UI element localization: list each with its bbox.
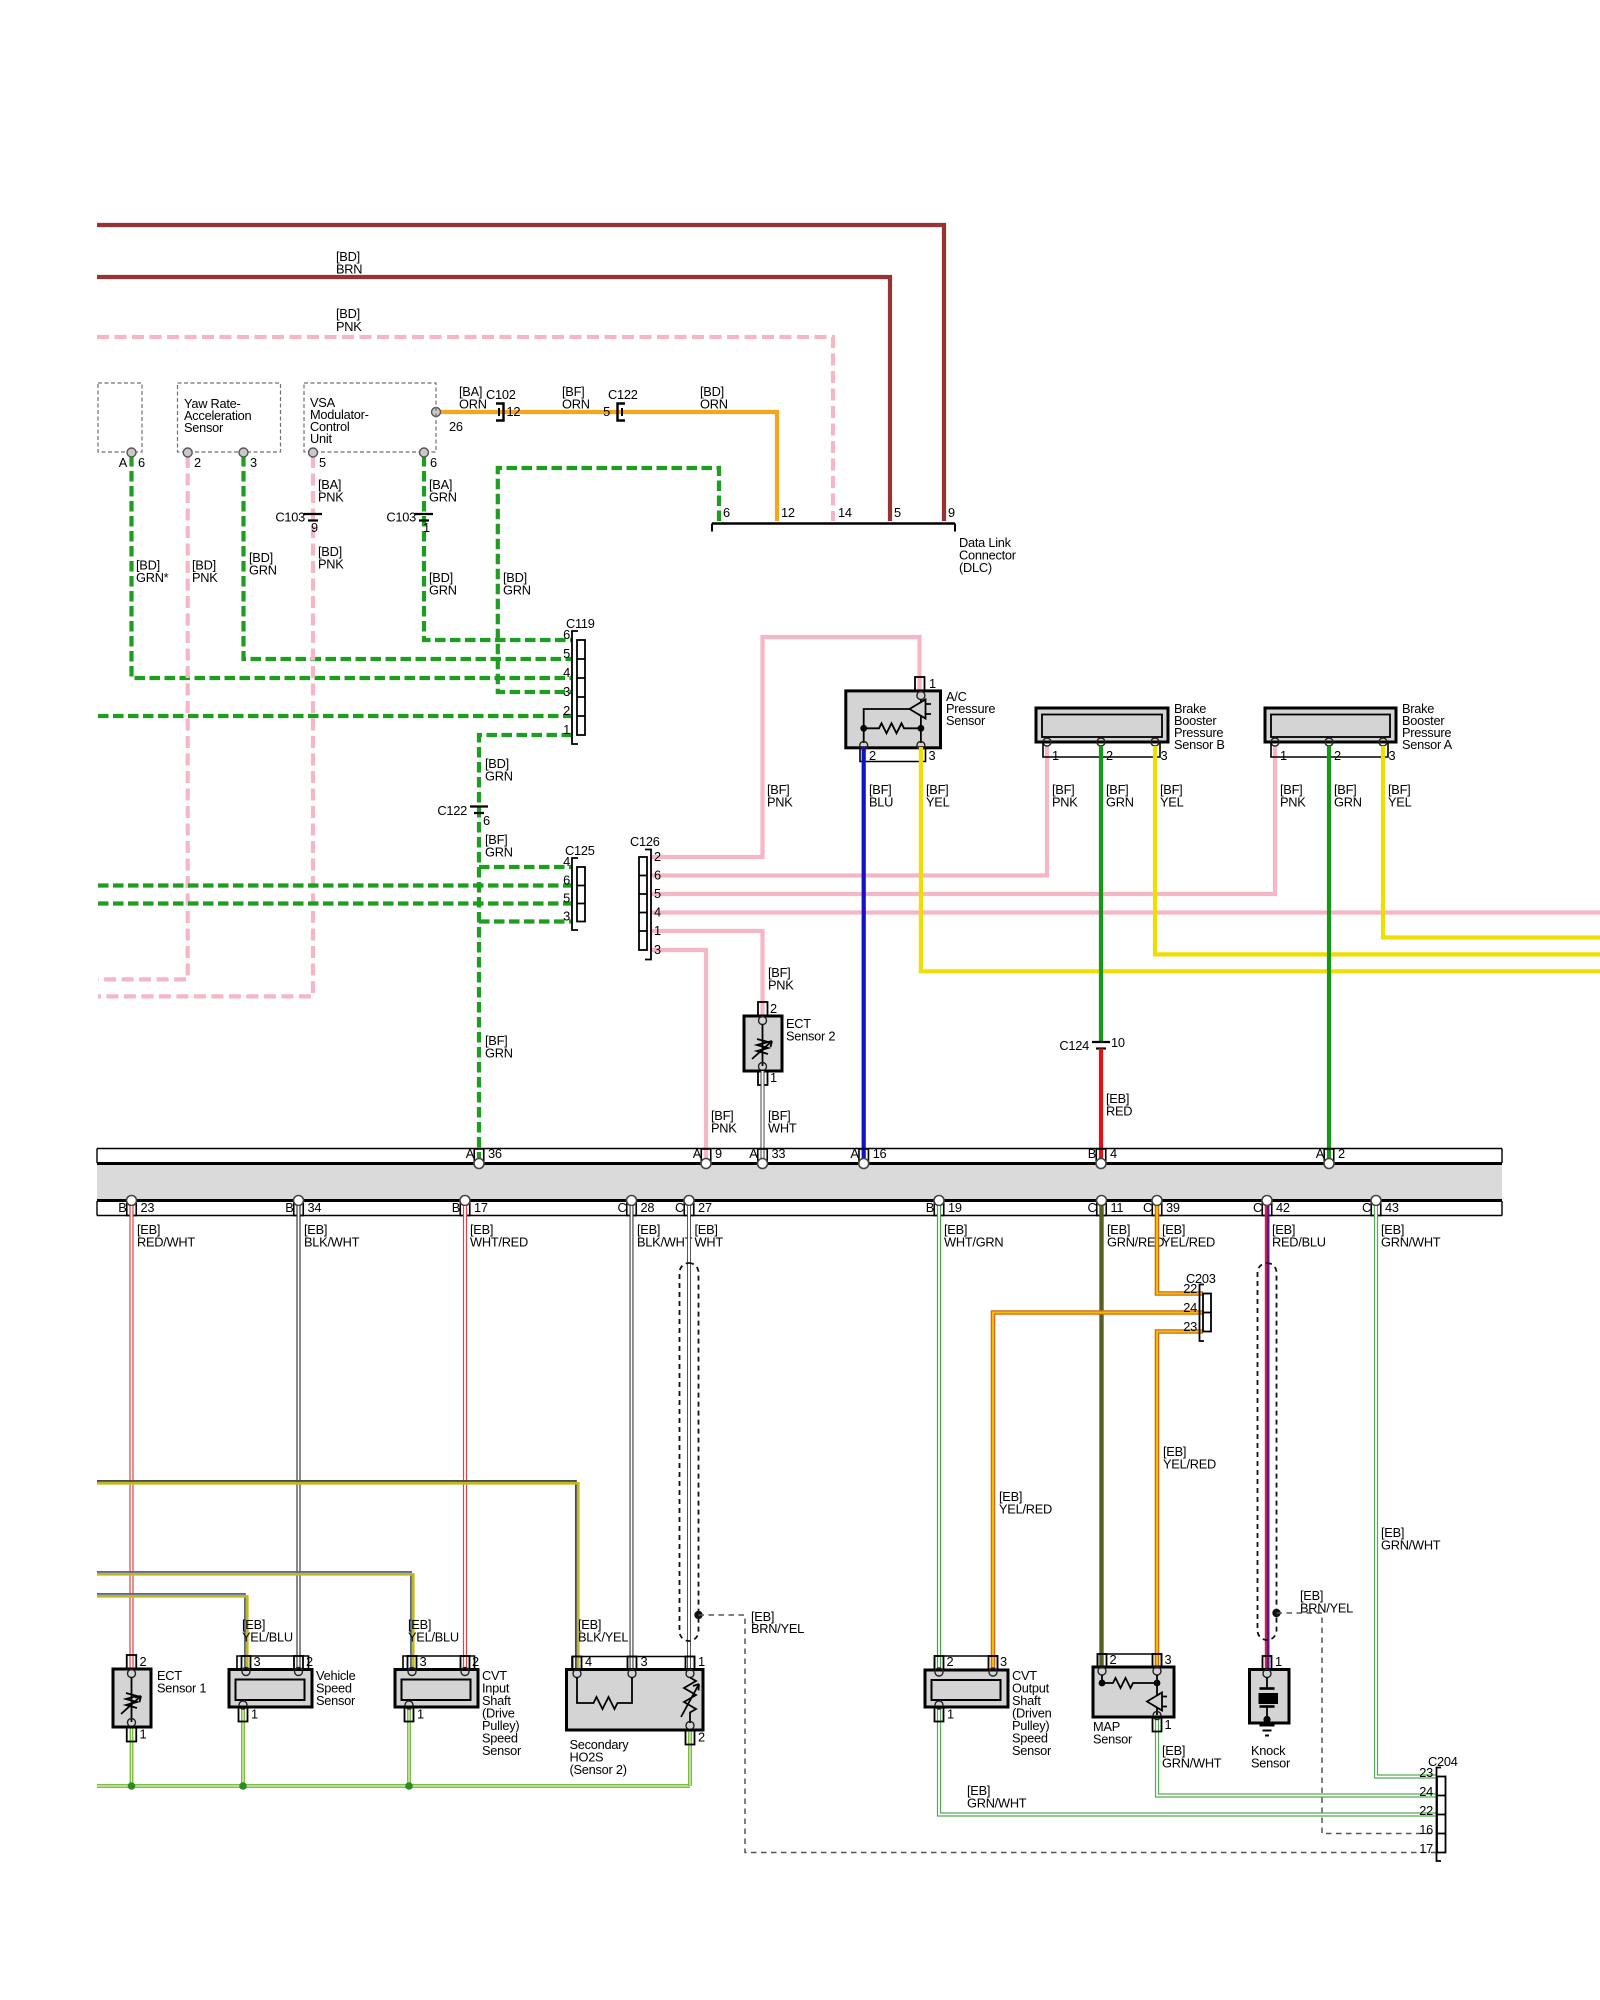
unit VSA Modulator-Control Unit [304, 383, 436, 452]
svg-text:YEL/RED: YEL/RED [999, 1502, 1052, 1517]
svg-text:Sensor 2: Sensor 2 [786, 1029, 835, 1044]
wire BRN to DLC pin 9 [97, 225, 944, 521]
svg-text:C: C [1143, 1200, 1152, 1215]
wire GRN/WHT CVT output pin 1 to C204 pin 22 [939, 1707, 1437, 1815]
svg-text:3: 3 [254, 1654, 261, 1669]
internal wire [864, 709, 910, 728]
svg-text:A: A [1316, 1146, 1325, 1161]
label [BF] YEL (Brake A 3) [1388, 782, 1412, 810]
unit Yaw Rate-Acceleration Sensor [178, 383, 281, 452]
node VSA pin 5 [309, 448, 318, 457]
wire BRN/YEL dashed shield to C204 pin 16 [1277, 1613, 1438, 1834]
svg-text:BLK/WHT: BLK/WHT [304, 1235, 360, 1250]
wire YEL/BLU left edge to CVT input pin 3 [97, 1572, 413, 1670]
label [EB] RED/BLU [1272, 1222, 1326, 1250]
wire GRN dashed C119 pin 1 / C122 / C125 pins 4,3 / ECM A36 [479, 735, 572, 1161]
node ECM pin C28 [618, 1196, 655, 1216]
label [EB] BLK/YEL [578, 1617, 628, 1645]
svg-text:3: 3 [1165, 1652, 1172, 1667]
svg-text:B: B [285, 1200, 293, 1215]
sensor CVT Input Shaft Speed Sensor [395, 1654, 522, 1758]
svg-text:PNK: PNK [192, 570, 218, 585]
svg-text:RED/WHT: RED/WHT [137, 1235, 195, 1250]
svg-text:C119: C119 [566, 616, 595, 631]
svg-text:GRN*: GRN* [136, 570, 169, 585]
connector C203 [1183, 1271, 1215, 1341]
svg-text:YEL/BLU: YEL/BLU [242, 1630, 293, 1645]
svg-text:9: 9 [948, 505, 955, 520]
svg-text:2: 2 [654, 849, 661, 864]
svg-text:43: 43 [1385, 1200, 1399, 1215]
node ECM pin A36 [466, 1146, 502, 1169]
label [BF] BLU [869, 782, 893, 810]
svg-text:2: 2 [194, 455, 201, 470]
node junction VSS/bus [239, 1782, 247, 1790]
svg-text:YEL: YEL [1160, 795, 1184, 810]
node pin A6 [127, 448, 136, 457]
wire BRN to DLC pin 5 [97, 277, 890, 521]
svg-text:16: 16 [873, 1146, 887, 1161]
svg-text:WHT: WHT [695, 1235, 724, 1250]
svg-text:C122: C122 [437, 803, 467, 818]
node shield ground tap (HO2S) [694, 1611, 702, 1619]
svg-text:5: 5 [319, 455, 326, 470]
wire GRN Brake B pin 2 to C124 [1099, 746, 1103, 1042]
svg-text:C: C [1253, 1200, 1262, 1215]
node ECM pin C43 [1362, 1196, 1399, 1216]
svg-text:BRN/YEL: BRN/YEL [751, 1621, 804, 1636]
svg-text:4: 4 [1110, 1146, 1117, 1161]
svg-text:GRN: GRN [429, 490, 457, 505]
wire WHT ECT2 pin 1 to ECM A33 [761, 1071, 765, 1161]
label [BF] PNK (to A9) [711, 1108, 737, 1136]
svg-text:4: 4 [563, 665, 570, 680]
ground (knock) [1260, 1726, 1275, 1736]
label [BF] GRN (Brake B 2) [1106, 782, 1134, 810]
svg-text:2: 2 [1334, 748, 1341, 763]
label [EB] GRN/WHT (C43 lower) [1381, 1525, 1441, 1553]
connector C122 pin 6 (inline on green) [437, 803, 490, 828]
node junction ECT1/bus [128, 1782, 136, 1790]
wire GRN dashed Yaw pin 3 to C119 pin 5 [244, 456, 573, 659]
node ECM pin A33 [749, 1146, 785, 1169]
svg-text:RED/BLU: RED/BLU [1272, 1235, 1326, 1250]
svg-text:6: 6 [654, 868, 661, 883]
svg-text:3: 3 [929, 748, 936, 763]
wire PNK C126 pin 2 to A/C sensor pin 1 [651, 637, 920, 857]
svg-text:4: 4 [654, 905, 661, 920]
wire GRN dashed left edge to C119 pin 2 [98, 714, 572, 718]
label [EB] YEL/RED (C39) [1162, 1222, 1215, 1250]
label [EB] YEL/RED (to MAP) [1163, 1444, 1216, 1472]
wire GRN HO2S pin 2 to bus [688, 1730, 692, 1786]
svg-text:YEL: YEL [926, 795, 950, 810]
label [BF] PNK (AC pin1) [767, 782, 793, 810]
svg-text:5: 5 [603, 404, 610, 419]
svg-text:BLK/WHT: BLK/WHT [637, 1235, 693, 1250]
label Data Link Connector (DLC) [959, 535, 1017, 575]
label [BF] YEL (AC) [926, 782, 950, 810]
label [BD] PNK [336, 306, 362, 334]
wire PNK C126 pin 3 to ECM A9 [651, 950, 706, 1161]
wire GRN dashed VSA pin 6 to C119 pin 6 [424, 456, 572, 640]
node ECM pin A2 [1316, 1146, 1345, 1169]
svg-text:24: 24 [1183, 1300, 1197, 1315]
svg-text:3: 3 [563, 684, 570, 699]
label [BD] GRN (VSA 6) [429, 570, 457, 598]
wire GRN VSS pin 1 to bus [241, 1707, 245, 1786]
svg-text:B: B [1088, 1146, 1096, 1161]
connector C126 [630, 834, 661, 960]
node ECM pin B19 [926, 1196, 962, 1216]
label [BF] GRN (below C122) [485, 832, 513, 860]
wire GRN Brake A pin 2 to ECM A2 [1327, 746, 1331, 1161]
sensor ECT Sensor 1 [113, 1654, 206, 1742]
svg-text:10: 10 [1111, 1035, 1125, 1050]
svg-text:42: 42 [1276, 1200, 1290, 1215]
svg-text:1: 1 [1280, 748, 1287, 763]
svg-text:1: 1 [140, 1727, 147, 1742]
label [EB] WHT (C27) [695, 1222, 724, 1250]
svg-text:23: 23 [1419, 1765, 1433, 1780]
label [EB] YEL/RED (to CVT output) [999, 1489, 1052, 1517]
svg-text:C103: C103 [386, 510, 416, 525]
wire YEL A/C pin 3 to right edge [921, 747, 1600, 971]
wire ORN C102/C122 to DLC pin 12 [436, 412, 777, 521]
label [EB] BRN/YEL (HO2S) [751, 1609, 804, 1636]
svg-text:A: A [466, 1146, 475, 1161]
svg-text:PNK: PNK [318, 557, 344, 572]
svg-text:2: 2 [698, 1730, 705, 1745]
pin bracket [860, 748, 926, 762]
svg-text:1: 1 [1275, 1654, 1282, 1669]
wire RED C124 to ECM B4 [1099, 1049, 1103, 1162]
wire GRN CVT input pin 1 to bus [407, 1707, 411, 1786]
svg-text:1: 1 [698, 1654, 705, 1669]
svg-text:2: 2 [563, 703, 570, 718]
svg-text:1: 1 [947, 1707, 954, 1722]
svg-text:2: 2 [306, 1654, 313, 1669]
transistor triangle (MAP) [1147, 1693, 1162, 1711]
svg-text:1: 1 [1165, 1717, 1172, 1732]
label [BF] WHT [768, 1108, 797, 1136]
svg-text:16: 16 [1419, 1822, 1433, 1837]
svg-text:33: 33 [772, 1146, 786, 1161]
svg-text:5: 5 [894, 505, 901, 520]
wire PNK dashed VSA pin 5 to left edge [98, 456, 313, 996]
svg-text:Sensor 1: Sensor 1 [157, 1681, 206, 1696]
svg-text:3: 3 [563, 909, 570, 924]
label [EB] YEL/BLU (VSS) [242, 1617, 293, 1645]
wire BLK/WHT ECM C28 to HO2S pin 3 [630, 1206, 634, 1670]
label [BA] ORN [459, 384, 487, 412]
label [EB] GRN/WHT (C43) [1381, 1222, 1441, 1250]
svg-text:6: 6 [563, 873, 570, 888]
svg-text:9: 9 [311, 520, 318, 535]
label [EB] WHT/RED [470, 1222, 528, 1250]
node Yaw pin 3 [239, 448, 248, 457]
svg-text:PNK: PNK [318, 490, 344, 505]
svg-text:A: A [850, 1146, 859, 1161]
connector C124 pin 10 [1059, 1035, 1124, 1053]
svg-text:1: 1 [563, 722, 570, 737]
svg-text:2: 2 [947, 1654, 954, 1669]
svg-text:C102: C102 [486, 387, 516, 402]
node ECM pin B4 [1088, 1146, 1117, 1169]
label [EB] WHT/GRN [944, 1222, 1003, 1250]
svg-text:12: 12 [507, 404, 521, 419]
pin 1 box [917, 677, 921, 691]
svg-text:3: 3 [641, 1654, 648, 1669]
wire BRN/YEL dashed shield to C204 pin 17 [699, 1615, 1438, 1853]
svg-text:5: 5 [563, 646, 570, 661]
svg-text:34: 34 [308, 1200, 322, 1215]
sensor Vehicle Speed Sensor [229, 1654, 356, 1722]
connector C119 [563, 616, 595, 744]
wire PNK dashed to DLC pin 14 [97, 337, 833, 521]
node ECM pin C39 [1143, 1196, 1180, 1216]
svg-text:PNK: PNK [768, 978, 794, 993]
svg-text:1: 1 [423, 520, 430, 535]
svg-text:Sensor A: Sensor A [1402, 737, 1453, 752]
svg-text:24: 24 [1419, 1784, 1433, 1799]
svg-text:PNK: PNK [711, 1121, 737, 1136]
node ECM pin C27 [675, 1196, 712, 1216]
node ECM pin B34 [285, 1196, 321, 1216]
label [EB] GRN/WHT (CVT output) [967, 1783, 1027, 1811]
wire GRN/RED ECM C11 to MAP pin 2 [1099, 1206, 1103, 1667]
wire GRN ECT1 pin 1 to bus [130, 1727, 134, 1786]
resistor [864, 723, 921, 733]
svg-text:6: 6 [138, 455, 145, 470]
shield around C42 wire [1258, 1263, 1277, 1640]
svg-text:PNK: PNK [1280, 795, 1306, 810]
svg-text:4: 4 [563, 854, 570, 869]
connector C103 pin 9 [275, 510, 322, 536]
svg-text:GRN: GRN [485, 769, 513, 784]
connector C204 [1419, 1754, 1457, 1861]
label [EB] GRN/WHT (MAP) [1162, 1743, 1222, 1771]
label [BD] PNK (Yaw 2) [192, 558, 218, 586]
label [BA] PNK [318, 477, 344, 505]
wire PNK C126 pin 6 to Brake B pin 1 [651, 746, 1047, 876]
sensor Brake Booster Pressure Sensor A [1265, 701, 1453, 763]
label [BF] PNK (Brake A 1) [1280, 782, 1306, 810]
node shield ground tap (knock) [1272, 1609, 1280, 1617]
svg-text:C126: C126 [630, 834, 660, 849]
svg-text:GRN/WHT: GRN/WHT [1381, 1538, 1441, 1553]
label [BF] YEL (Brake B 3) [1160, 782, 1184, 810]
svg-text:ORN: ORN [700, 397, 728, 412]
sensor Brake Booster Pressure Sensor B [1036, 701, 1225, 763]
node VSA pin 6 [420, 448, 429, 457]
label [BA] GRN [429, 477, 457, 505]
sensor CVT Output Shaft Speed Sensor [925, 1654, 1052, 1758]
svg-text:6: 6 [563, 627, 570, 642]
svg-text:GRN/WHT: GRN/WHT [1381, 1235, 1441, 1250]
svg-text:C: C [675, 1200, 684, 1215]
node ECM pin A9 [693, 1146, 722, 1169]
connector C103 pin 1 [386, 510, 433, 536]
svg-text:C122: C122 [608, 387, 638, 402]
svg-text:GRN/WHT: GRN/WHT [1162, 1756, 1222, 1771]
svg-text:2: 2 [1106, 748, 1113, 763]
node Yaw pin 2 [183, 448, 192, 457]
svg-text:1: 1 [929, 676, 936, 691]
svg-text:RED: RED [1106, 1104, 1132, 1119]
wire BLK/YEL left edge to HO2S pin 4 [97, 1481, 578, 1670]
sensor ECT Sensor 2 [744, 1001, 835, 1085]
node VSA pin 26 [432, 408, 441, 417]
svg-text:A: A [119, 455, 128, 470]
svg-text:5: 5 [654, 886, 661, 901]
svg-text:17: 17 [474, 1200, 488, 1215]
svg-text:23: 23 [141, 1200, 155, 1215]
svg-text:GRN: GRN [249, 563, 277, 578]
svg-text:3: 3 [250, 455, 257, 470]
wire YEL/RED C203 pin 23 to MAP pin 3 [1157, 1332, 1203, 1668]
svg-text:PNK: PNK [767, 795, 793, 810]
svg-text:ORN: ORN [459, 397, 487, 412]
label [BF] GRN (Brake A 2) [1334, 782, 1362, 810]
svg-text:3: 3 [1389, 748, 1396, 763]
svg-text:Sensor: Sensor [1093, 1732, 1133, 1747]
wire BLU A/C pin 2 to ECM A16 [862, 747, 866, 1161]
svg-text:PNK: PNK [1052, 795, 1078, 810]
label [BF] GRN (above ECM A36) [485, 1033, 513, 1061]
svg-text:2: 2 [472, 1654, 479, 1669]
svg-text:C124: C124 [1059, 1038, 1089, 1053]
svg-text:1: 1 [417, 1707, 424, 1722]
svg-text:9: 9 [715, 1146, 722, 1161]
transistor triangle [910, 700, 926, 719]
svg-text:C: C [618, 1200, 627, 1215]
wire WHT ECM C27 to HO2S pin 1 [687, 1206, 691, 1670]
wire GRN/WHT MAP pin 1 to C204 pin 24 [1157, 1717, 1437, 1796]
label [BF] PNK (Brake B 1) [1052, 782, 1078, 810]
label [BD] GRN* [136, 558, 169, 586]
svg-text:1: 1 [251, 1707, 258, 1722]
node ECM pin B17 [452, 1196, 488, 1216]
svg-text:12: 12 [781, 505, 795, 520]
label [EB] GRN/RED [1107, 1222, 1164, 1250]
svg-text:B: B [926, 1200, 934, 1215]
wire RED/WHT ECM B23 to ECT1 pin 2 [129, 1206, 133, 1669]
svg-text:1: 1 [1052, 748, 1059, 763]
wire RED/BLU ECM C42 to knock sensor pin 1 [1266, 1206, 1268, 1670]
svg-text:Sensor: Sensor [1251, 1756, 1291, 1771]
wire GRN dashed left edge to C125 pin 5 [98, 901, 572, 905]
svg-text:GRN: GRN [503, 583, 531, 598]
unit box (partial, left) [98, 383, 142, 452]
svg-text:2: 2 [770, 1001, 777, 1016]
wire WHT/GRN ECM B19 to CVT output pin 2 [937, 1206, 941, 1670]
wire YEL/RED ECM C39 to C203 pin 22 [1157, 1206, 1203, 1294]
wire GRN dashed left edge to C125 pin 6 [98, 883, 572, 887]
svg-text:23: 23 [1183, 1319, 1197, 1334]
label [BD] BRN [336, 249, 362, 277]
label [BD] ORN [700, 384, 728, 412]
svg-text:BLU: BLU [869, 795, 893, 810]
svg-text:6: 6 [430, 455, 437, 470]
svg-text:11: 11 [1111, 1200, 1124, 1215]
node ECM pin B23 [118, 1196, 154, 1216]
svg-text:(Sensor 2): (Sensor 2) [570, 1762, 627, 1777]
label [EB] YEL/BLU (CVT input) [408, 1617, 459, 1645]
svg-text:22: 22 [1183, 1281, 1197, 1296]
wire PNK C126 pin 1 to ECT2 pin 2 [651, 931, 763, 1016]
svg-text:BRN/YEL: BRN/YEL [1300, 1601, 1353, 1616]
svg-text:(DLC): (DLC) [959, 560, 992, 575]
shield around C27 wire [680, 1263, 699, 1641]
svg-text:27: 27 [698, 1200, 712, 1215]
svg-text:2: 2 [1110, 1652, 1117, 1667]
svg-text:Sensor: Sensor [184, 420, 224, 435]
svg-text:YEL/RED: YEL/RED [1162, 1235, 1215, 1250]
svg-text:A: A [693, 1146, 702, 1161]
svg-text:Unit: Unit [310, 431, 332, 446]
label [EB] RED [1106, 1091, 1132, 1119]
label [EB] BLK/WHT (C28) [637, 1222, 693, 1250]
wire GRN* dashed pin A6 to C119 pin 4 [132, 456, 573, 678]
sensor Secondary HO2S (Sensor 2) [567, 1654, 706, 1777]
wire PNK dashed Yaw pin 2 to left edge [98, 456, 188, 979]
svg-text:C103: C103 [275, 510, 305, 525]
body [846, 691, 941, 748]
svg-text:GRN: GRN [429, 583, 457, 598]
svg-text:Sensor: Sensor [1012, 1743, 1052, 1758]
svg-text:28: 28 [641, 1200, 655, 1215]
svg-text:4: 4 [585, 1654, 592, 1669]
svg-text:3: 3 [1000, 1654, 1007, 1669]
svg-text:WHT: WHT [768, 1121, 797, 1136]
wire YEL Brake B pin 3 to right edge [1155, 746, 1600, 954]
label [BD] GRN (DLC branch) [503, 570, 531, 598]
svg-text:26: 26 [449, 419, 463, 434]
svg-text:2: 2 [869, 748, 876, 763]
wire GRN/WHT ECM C43 to C204 pin 23 [1376, 1206, 1437, 1777]
svg-text:39: 39 [1166, 1200, 1180, 1215]
svg-text:GRN: GRN [485, 845, 513, 860]
svg-text:3: 3 [654, 942, 661, 957]
svg-text:YEL/RED: YEL/RED [1163, 1457, 1216, 1472]
svg-text:22: 22 [1419, 1803, 1433, 1818]
svg-text:1: 1 [770, 1070, 777, 1085]
ECM/PCM connector strip [97, 1149, 1502, 1216]
svg-text:ORN: ORN [562, 397, 590, 412]
wire BLK/WHT ECM B34 to VSS pin 2 [296, 1206, 300, 1670]
connector C102 pin 12 [486, 387, 520, 421]
sensor MAP Sensor [1093, 1652, 1174, 1747]
connector DLC bar [712, 524, 955, 532]
svg-text:5: 5 [563, 891, 570, 906]
wire GRN ground bus (bottom) [97, 1784, 690, 1788]
svg-text:GRN: GRN [1334, 795, 1362, 810]
sensor A/C Pressure Sensor [846, 676, 996, 763]
svg-text:PNK: PNK [336, 319, 362, 334]
label [BD] GRN (Yaw 3) [249, 550, 277, 578]
svg-text:2: 2 [140, 1654, 147, 1669]
wire YEL Brake A pin 3 to right edge [1383, 746, 1600, 938]
label [BD] PNK (VSA 5) [318, 544, 344, 572]
svg-text:36: 36 [488, 1146, 502, 1161]
node junction CVT input/bus [405, 1782, 413, 1790]
svg-text:6: 6 [483, 813, 490, 828]
svg-text:WHT/RED: WHT/RED [470, 1235, 528, 1250]
wire YEL/BLU left edge to VSS pin 3 [97, 1594, 247, 1670]
svg-text:GRN: GRN [485, 1046, 513, 1061]
wire PNK C126 pin 5 to Brake A pin 1 [651, 746, 1275, 894]
